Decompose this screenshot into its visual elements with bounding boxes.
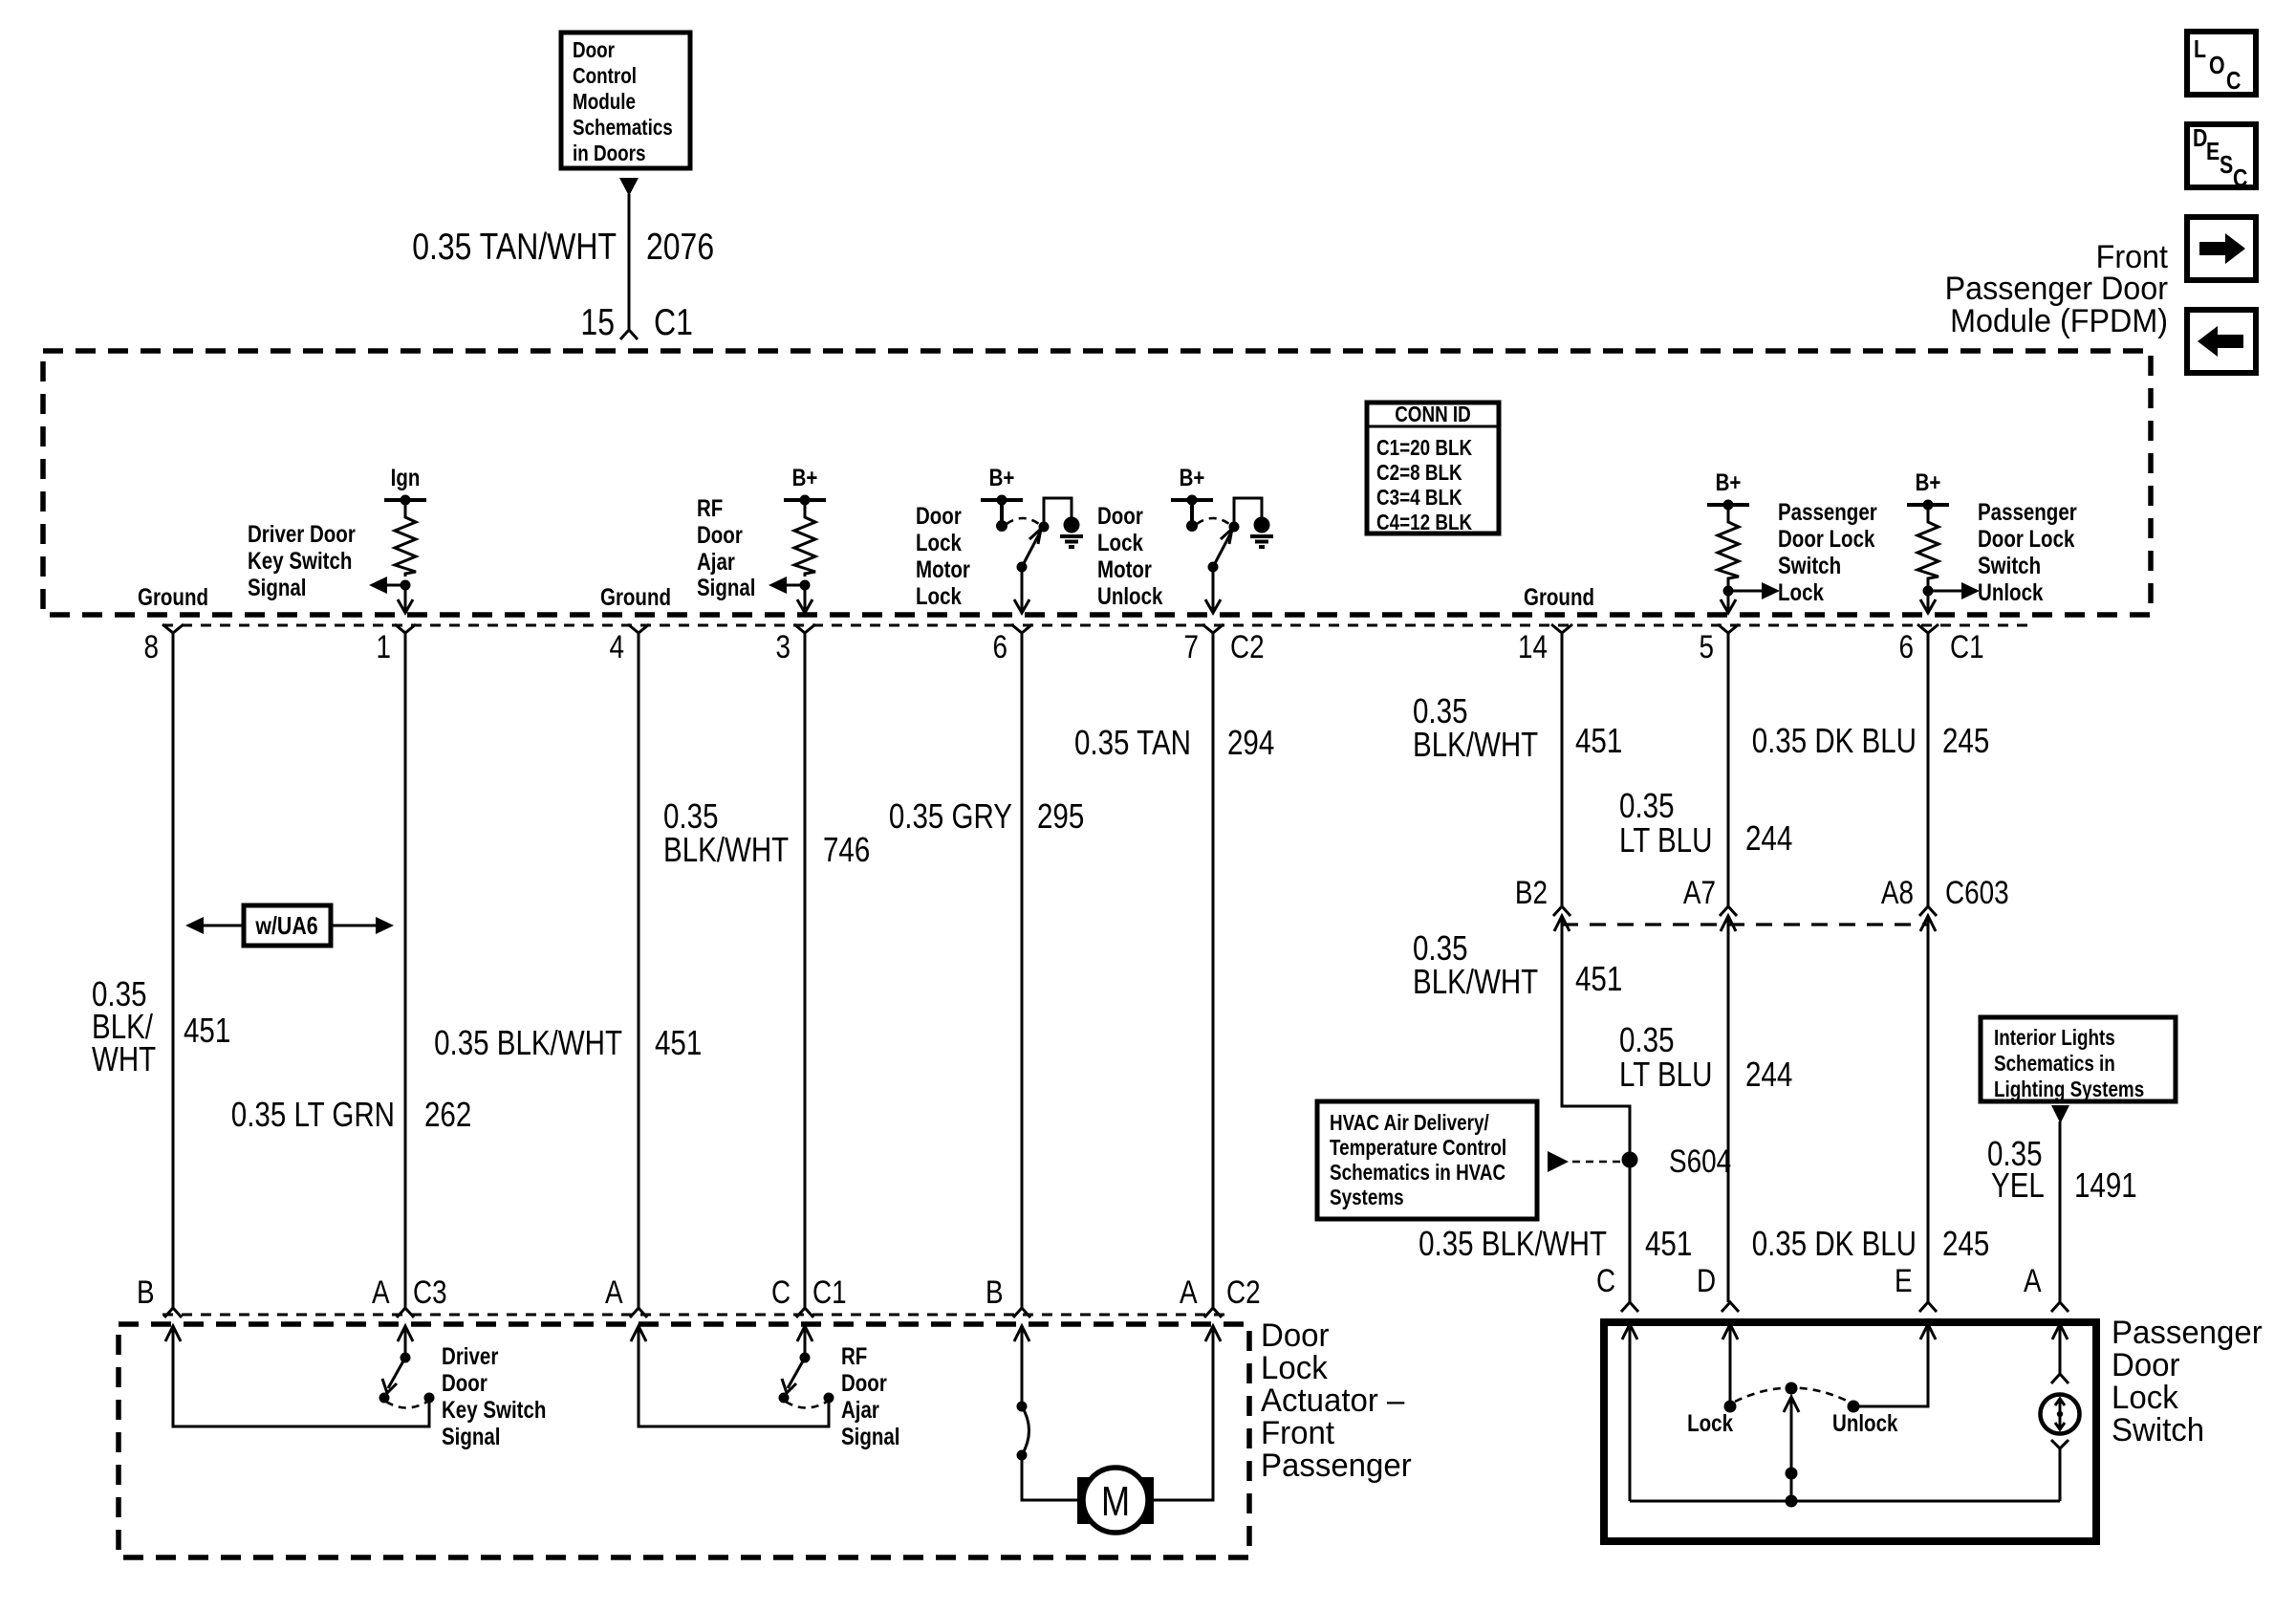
pin 4 connector	[628, 624, 649, 633]
label Door Lock Motor Unlock	[1097, 503, 1162, 610]
svg-text:Door: Door	[573, 37, 615, 62]
case ground symbol (unlock)	[1250, 517, 1273, 548]
junction dot lock sense	[1723, 586, 1734, 597]
svg-text:8: 8	[144, 629, 160, 665]
resistor (passenger door lock switch lock)	[1727, 505, 1730, 517]
svg-text:0.35: 0.35	[1619, 1020, 1675, 1059]
svg-text:LT BLU: LT BLU	[1619, 820, 1712, 860]
svg-text:0.35 BLK/WHT: 0.35 BLK/WHT	[434, 1023, 622, 1062]
Door Lock Actuator dashed box	[119, 1324, 1249, 1557]
wire 245 DK BLU pin 6 C1 to connector C603 pin A8	[1927, 633, 1930, 906]
switch pole dot (unlock)	[1229, 522, 1240, 533]
FPDM module label: Front Passenger Door Module (FPDM)	[1945, 239, 2169, 339]
wire 294 TAN pin 7 to actuator pin A C2	[1212, 633, 1215, 1308]
Unlock contact dot	[1848, 1401, 1860, 1413]
wire 245 DK BLU C603 A8 to switch pin E	[1927, 916, 1930, 1302]
signal tap arrow (Driver Door Key Switch Signal)	[386, 584, 405, 587]
svg-text:Motor: Motor	[1097, 556, 1152, 583]
switch pin A	[2051, 1302, 2069, 1312]
CONN ID table	[1367, 402, 1499, 534]
svg-text:Temperature Control: Temperature Control	[1330, 1135, 1506, 1160]
icon box right-arrow	[2187, 217, 2256, 280]
svg-text:B2: B2	[1515, 875, 1548, 911]
svg-text:262: 262	[424, 1095, 471, 1134]
svg-text:Module: Module	[573, 89, 636, 114]
dashed gang link (lock switch)	[1007, 518, 1039, 524]
svg-text:Driver Door: Driver Door	[248, 521, 356, 548]
wire label 0.35 BLK/ WHT	[92, 974, 156, 1078]
svg-text:BLK/WHT: BLK/WHT	[1413, 962, 1538, 1001]
svg-text:245: 245	[1942, 721, 1989, 760]
svg-text:6: 6	[993, 629, 1008, 665]
svg-text:B+: B+	[1916, 469, 1941, 496]
sense tap arrow (lock)	[1727, 579, 1730, 591]
svg-text:Interior Lights: Interior Lights	[1994, 1025, 2115, 1050]
svg-text:C1: C1	[812, 1274, 847, 1311]
B+ supply bar (lock driver)	[981, 495, 1023, 506]
pin 5 connector	[1718, 624, 1739, 633]
resistor (passenger door lock switch unlock)	[1927, 505, 1930, 517]
svg-text:C: C	[2233, 163, 2248, 192]
pin 7 connector, connector C2	[1202, 624, 1224, 633]
svg-text:Schematics in: Schematics in	[1994, 1051, 2115, 1076]
actuator pin A (ajar)	[630, 1308, 647, 1317]
svg-text:Signal: Signal	[442, 1424, 501, 1450]
svg-text:B+: B+	[1180, 465, 1205, 491]
Ign supply bar	[384, 495, 426, 506]
svg-text:B: B	[986, 1274, 1004, 1311]
off-page arrow from Interior Lights box	[2051, 1105, 2069, 1123]
svg-text:14: 14	[1518, 629, 1548, 665]
switch pin C	[1621, 1302, 1638, 1312]
switch moving contact (lock)	[1017, 562, 1028, 573]
svg-text:Signal: Signal	[248, 575, 307, 601]
pin 6 connector	[1011, 624, 1032, 633]
svg-text:C1=20 BLK: C1=20 BLK	[1376, 435, 1472, 460]
wire 1491 YEL to switch pin A	[2059, 1121, 2062, 1302]
switch pin E	[1919, 1302, 1937, 1312]
svg-text:0.35 GRY: 0.35 GRY	[889, 796, 1012, 836]
label Passenger Door Lock Switch Lock	[1778, 499, 1877, 606]
wire 451 BLK/WHT pin 8 to actuator pin B	[172, 633, 175, 1308]
svg-text:A7: A7	[1683, 875, 1716, 911]
actuator pin C, connector C1	[796, 1308, 813, 1317]
rocker common dot	[1786, 1382, 1798, 1395]
pin 8 connector	[162, 624, 184, 633]
pin A8 of C603	[1919, 906, 1937, 916]
sense tap arrow (unlock)	[1927, 579, 1930, 591]
switch moving contact (unlock)	[1208, 562, 1219, 573]
actuator pin A, connector C2	[1204, 1308, 1222, 1317]
svg-text:E: E	[1895, 1263, 1913, 1299]
svg-text:Control: Control	[573, 63, 637, 88]
B+ supply bar (unlock sense)	[1907, 500, 1949, 511]
svg-text:4: 4	[610, 629, 625, 665]
common rail wire	[1630, 1500, 2060, 1503]
svg-text:451: 451	[1575, 959, 1622, 998]
svg-text:C3=4 BLK: C3=4 BLK	[1376, 485, 1462, 510]
svg-text:Door: Door	[1261, 1317, 1330, 1354]
svg-text:LT BLU: LT BLU	[1619, 1055, 1712, 1094]
svg-text:Signal: Signal	[841, 1424, 900, 1450]
connector half symbol at FPDM pin 15	[620, 330, 638, 339]
signal tap arrow (RF Door Ajar Signal)	[786, 584, 805, 587]
svg-text:A: A	[2024, 1263, 2042, 1299]
svg-text:Door: Door	[442, 1370, 487, 1397]
svg-text:Passenger: Passenger	[1778, 499, 1877, 526]
wire 295 GRY pin 6 to actuator pin B	[1021, 633, 1024, 1308]
svg-text:Unlock: Unlock	[1097, 583, 1162, 610]
FPDM harness connector face (thin dashed)	[162, 624, 2031, 627]
label RF Door Ajar Signal	[841, 1343, 900, 1450]
svg-text:3: 3	[776, 629, 791, 665]
svg-text:0.35 TAN: 0.35 TAN	[1074, 723, 1191, 762]
svg-text:C: C	[1596, 1263, 1615, 1299]
wire unlock switch to pin 7 with arrow	[1212, 567, 1215, 613]
svg-text:HVAC Air Delivery/: HVAC Air Delivery/	[1330, 1110, 1489, 1135]
svg-text:Lock: Lock	[1261, 1350, 1329, 1386]
wire pin E to Unlock contact	[1853, 1324, 1928, 1406]
svg-text:1491: 1491	[2074, 1165, 2137, 1205]
wire RF resistor to pin 3 with arrow	[804, 585, 807, 613]
svg-text:C: C	[2226, 66, 2242, 95]
svg-text:WHT: WHT	[92, 1039, 156, 1078]
svg-text:746: 746	[823, 830, 870, 869]
switch pin D	[1722, 1302, 1739, 1312]
svg-text:244: 244	[1745, 818, 1792, 858]
svg-text:Motor: Motor	[916, 556, 970, 583]
svg-text:C3: C3	[413, 1274, 447, 1311]
svg-text:Lock: Lock	[2112, 1380, 2179, 1416]
wire 746 BLK/WHT pin 3 to actuator pin C C1	[804, 633, 807, 1308]
svg-text:451: 451	[655, 1023, 702, 1062]
svg-text:E: E	[2206, 137, 2220, 165]
icon box LOC	[2187, 32, 2256, 95]
label Door Lock Motor Lock	[916, 503, 970, 610]
svg-text:Door: Door	[1097, 503, 1143, 530]
svg-text:Ground: Ground	[600, 584, 671, 611]
label Driver Door Key Switch Signal	[248, 521, 356, 601]
svg-text:BLK/WHT: BLK/WHT	[1413, 725, 1538, 764]
wire label 0.35 BLK/WHT	[1413, 691, 1538, 764]
svg-text:Ajar: Ajar	[841, 1397, 879, 1424]
svg-text:1: 1	[377, 629, 392, 665]
svg-text:C2: C2	[1226, 1274, 1261, 1311]
svg-text:2076: 2076	[646, 227, 714, 268]
svg-text:Lock: Lock	[1097, 530, 1143, 556]
svg-text:RF: RF	[697, 495, 723, 522]
lock actuator contact (in actuator)	[1017, 1326, 1078, 1500]
pin 6 C1 connector, connector C1	[1917, 624, 1939, 633]
svg-text:Switch: Switch	[1978, 553, 2041, 579]
svg-text:C4=12 BLK: C4=12 BLK	[1376, 510, 1472, 534]
svg-text:M: M	[1101, 1478, 1130, 1525]
svg-text:Key Switch: Key Switch	[442, 1397, 546, 1424]
pin 3 connector	[794, 624, 815, 633]
B+ supply bar (unlock driver)	[1171, 495, 1213, 506]
svg-text:Signal: Signal	[697, 575, 756, 601]
svg-text:D: D	[1697, 1263, 1716, 1299]
svg-text:Systems: Systems	[1330, 1185, 1404, 1209]
svg-text:294: 294	[1227, 723, 1274, 762]
svg-text:Key Switch: Key Switch	[248, 548, 352, 575]
rocker common wire with arrow to lock/unlock	[1784, 1397, 1799, 1508]
svg-text:C: C	[771, 1274, 791, 1311]
svg-text:Passenger: Passenger	[2112, 1315, 2263, 1351]
splice S604	[1622, 1152, 1638, 1168]
svg-text:L: L	[2194, 34, 2206, 63]
svg-text:5: 5	[1700, 629, 1715, 665]
svg-text:0.35 DK BLU: 0.35 DK BLU	[1752, 1224, 1917, 1263]
svg-text:Passenger: Passenger	[1978, 499, 2077, 526]
svg-text:A: A	[605, 1274, 623, 1311]
svg-text:C1: C1	[1950, 629, 1984, 665]
junction dot unlock sense	[1923, 586, 1934, 597]
svg-text:O: O	[2209, 51, 2225, 79]
svg-text:Unlock: Unlock	[1978, 579, 2043, 606]
B+ stub to switch common (unlock)	[1190, 500, 1194, 521]
wire unlock sense to pin 6 C1 with arrow	[1927, 591, 1930, 613]
svg-text:Actuator –: Actuator –	[1261, 1382, 1404, 1419]
wire 262 LT GRN pin 1 to actuator pin A C3	[404, 633, 407, 1308]
svg-text:S604: S604	[1669, 1143, 1731, 1180]
svg-text:YEL: YEL	[1991, 1165, 2045, 1205]
actuator pin B (motor)	[1013, 1308, 1030, 1317]
svg-text:C2=8 BLK: C2=8 BLK	[1376, 460, 1462, 485]
B+ supply bar (RF door ajar)	[784, 495, 826, 506]
wire pole to case ground (unlock)	[1234, 498, 1262, 527]
resistor (Ign pull-up, driver door key switch signal)	[404, 500, 407, 512]
actuator pin A, connector C3	[397, 1308, 414, 1317]
svg-text:Passenger Door: Passenger Door	[1945, 271, 2168, 307]
label Passenger Door Lock Switch	[2112, 1315, 2263, 1448]
B+ supply bar (lock sense)	[1707, 500, 1749, 511]
svg-text:451: 451	[184, 1011, 230, 1050]
svg-text:A8: A8	[1881, 875, 1914, 911]
svg-text:0.35 BLK/WHT: 0.35 BLK/WHT	[1419, 1224, 1607, 1263]
svg-text:C1: C1	[654, 302, 693, 343]
wire 451 BLK/WHT pin 14 to connector C603 pin B2	[1561, 633, 1564, 906]
icon box left-arrow	[2187, 310, 2256, 373]
wire lock sense to pin 5 with arrow	[1727, 591, 1730, 613]
svg-text:Schematics: Schematics	[573, 115, 673, 140]
svg-text:Switch: Switch	[1778, 553, 1841, 579]
case ground symbol (lock)	[1060, 517, 1083, 548]
wire motor to pin A C2	[1154, 1326, 1213, 1500]
label Passenger Door Lock Switch Unlock	[1978, 499, 2077, 606]
off-page dashed link to S604	[1548, 1151, 1569, 1172]
junction dot on key switch signal wire	[401, 580, 411, 591]
svg-text:Driver: Driver	[442, 1343, 499, 1370]
pin 14 connector	[1551, 624, 1572, 633]
wire 451 BLK/WHT C603 B2 to S604 and switch pin C	[1562, 916, 1630, 1302]
junction dot RF ajar signal	[800, 580, 811, 591]
svg-text:C603: C603	[1945, 875, 2009, 911]
wire 244 LT BLU pin 5 to connector C603 pin A7	[1727, 633, 1730, 906]
wire label 0.35 LT BLU	[1619, 1020, 1712, 1094]
svg-text:Door: Door	[697, 522, 743, 549]
switch rocker dashed link	[1735, 1388, 1849, 1403]
annotation box: Door Control Module Schematics in Doors	[561, 33, 690, 168]
icon box DESC	[2187, 123, 2256, 192]
svg-text:451: 451	[1575, 721, 1622, 760]
svg-text:Lock: Lock	[1687, 1410, 1733, 1437]
wire label 0.35 YEL	[1987, 1134, 2045, 1205]
Lock contact dot	[1724, 1401, 1737, 1413]
svg-text:Ground: Ground	[138, 584, 208, 611]
svg-text:Lock: Lock	[916, 530, 962, 556]
switch pole dot (lock)	[1039, 522, 1050, 533]
svg-text:B+: B+	[1716, 469, 1742, 496]
B+ stub to switch common (lock)	[1000, 500, 1004, 521]
svg-text:Ajar: Ajar	[697, 549, 735, 576]
svg-text:BLK/WHT: BLK/WHT	[663, 830, 789, 869]
svg-text:Unlock: Unlock	[1832, 1410, 1897, 1437]
svg-text:Door: Door	[916, 503, 962, 530]
wire 451 BLK/WHT pin 4 to actuator pin A	[638, 633, 640, 1308]
svg-text:245: 245	[1942, 1224, 1989, 1263]
svg-text:Lock: Lock	[1778, 579, 1824, 606]
svg-text:Door Lock: Door Lock	[1978, 526, 2074, 553]
svg-text:CONN ID: CONN ID	[1395, 402, 1471, 426]
svg-text:0.35: 0.35	[1619, 786, 1675, 825]
resistor (RF door ajar pull-up)	[804, 500, 807, 512]
svg-text:0.35 DK BLU: 0.35 DK BLU	[1752, 721, 1917, 760]
svg-text:244: 244	[1745, 1055, 1792, 1094]
actuator harness connector face (thin dashed)	[162, 1314, 1226, 1317]
svg-text:in Doors: in Doors	[573, 141, 646, 165]
motor M (door lock actuator)	[1077, 1468, 1154, 1533]
svg-text:Door: Door	[841, 1370, 887, 1397]
FPDM module dashed box	[43, 351, 2151, 615]
wire lock switch to pin 6 with arrow	[1021, 567, 1024, 613]
svg-text:S: S	[2220, 150, 2233, 179]
pin B2 of C603	[1553, 906, 1570, 916]
svg-text:Door Lock: Door Lock	[1778, 526, 1874, 553]
svg-text:Ground: Ground	[1524, 584, 1594, 611]
svg-text:B+: B+	[989, 465, 1015, 491]
svg-text:Lighting Systems: Lighting Systems	[1994, 1077, 2144, 1101]
svg-text:Switch: Switch	[2112, 1412, 2204, 1448]
svg-text:Schematics in HVAC: Schematics in HVAC	[1330, 1160, 1505, 1185]
svg-text:Ign: Ign	[391, 465, 421, 491]
wire pin D to Lock contact	[1729, 1324, 1732, 1406]
option tag w/UA6	[185, 905, 394, 946]
svg-text:15: 15	[580, 302, 615, 343]
connector C603 in-line (dashed)	[1562, 923, 1928, 925]
driver door key switch (in actuator)	[173, 1326, 435, 1426]
svg-text:C2: C2	[1230, 629, 1265, 665]
svg-text:Front: Front	[1261, 1415, 1335, 1451]
RF door ajar switch (in actuator)	[639, 1326, 834, 1426]
off-page arrow from Door Control Module box	[619, 178, 639, 196]
label Door Lock Actuator - Front Passenger	[1261, 1317, 1412, 1484]
svg-text:Door: Door	[2112, 1347, 2180, 1383]
dashed gang link (unlock switch)	[1197, 518, 1229, 524]
wire pin C to common rail	[1629, 1324, 1632, 1501]
svg-text:Lock: Lock	[916, 583, 962, 610]
wire label 0.35 BLK/WHT	[663, 796, 789, 869]
svg-text:7: 7	[1184, 629, 1200, 665]
svg-text:Passenger: Passenger	[1261, 1448, 1412, 1484]
svg-text:B: B	[137, 1274, 155, 1311]
svg-text:0.35 TAN/WHT: 0.35 TAN/WHT	[412, 227, 617, 268]
svg-text:451: 451	[1645, 1224, 1692, 1263]
Passenger Door Lock Switch box	[1604, 1322, 2096, 1541]
svg-text:295: 295	[1037, 796, 1084, 836]
svg-text:RF: RF	[841, 1343, 867, 1370]
illumination lamp (in switch)	[2041, 1324, 2080, 1501]
pin 1 connector	[395, 624, 416, 633]
svg-text:0.35 LT GRN: 0.35 LT GRN	[231, 1095, 395, 1134]
wire 244 LT BLU C603 A7 to switch pin D	[1727, 916, 1730, 1302]
label Driver Door Key Switch Signal	[442, 1343, 546, 1450]
svg-text:B+: B+	[792, 465, 818, 491]
wire pole to case ground (lock)	[1044, 498, 1072, 527]
svg-text:Module (FPDM): Module (FPDM)	[1950, 303, 2168, 339]
annotation box: HVAC Air Delivery/Temperature Control Schematics in HVAC Systems	[1317, 1101, 1537, 1219]
pin A7 of C603	[1720, 906, 1737, 916]
wire Ign resistor to pin 1 with arrow	[404, 585, 407, 613]
label RF Door Ajar Signal	[697, 495, 756, 601]
svg-text:w/UA6: w/UA6	[255, 911, 318, 940]
actuator pin B	[164, 1308, 182, 1317]
svg-text:6: 6	[1899, 629, 1915, 665]
svg-text:A: A	[372, 1274, 390, 1311]
wire 2076 TAN/WHT from Door Control Module to FPDM pin 15	[628, 194, 631, 329]
annotation box: Interior Lights Schematics in Lighting Systems	[1981, 1017, 2176, 1101]
svg-text:A: A	[1180, 1274, 1198, 1311]
wire label 0.35 LT BLU	[1619, 786, 1712, 860]
wire label 0.35 BLK/WHT	[1413, 928, 1538, 1001]
